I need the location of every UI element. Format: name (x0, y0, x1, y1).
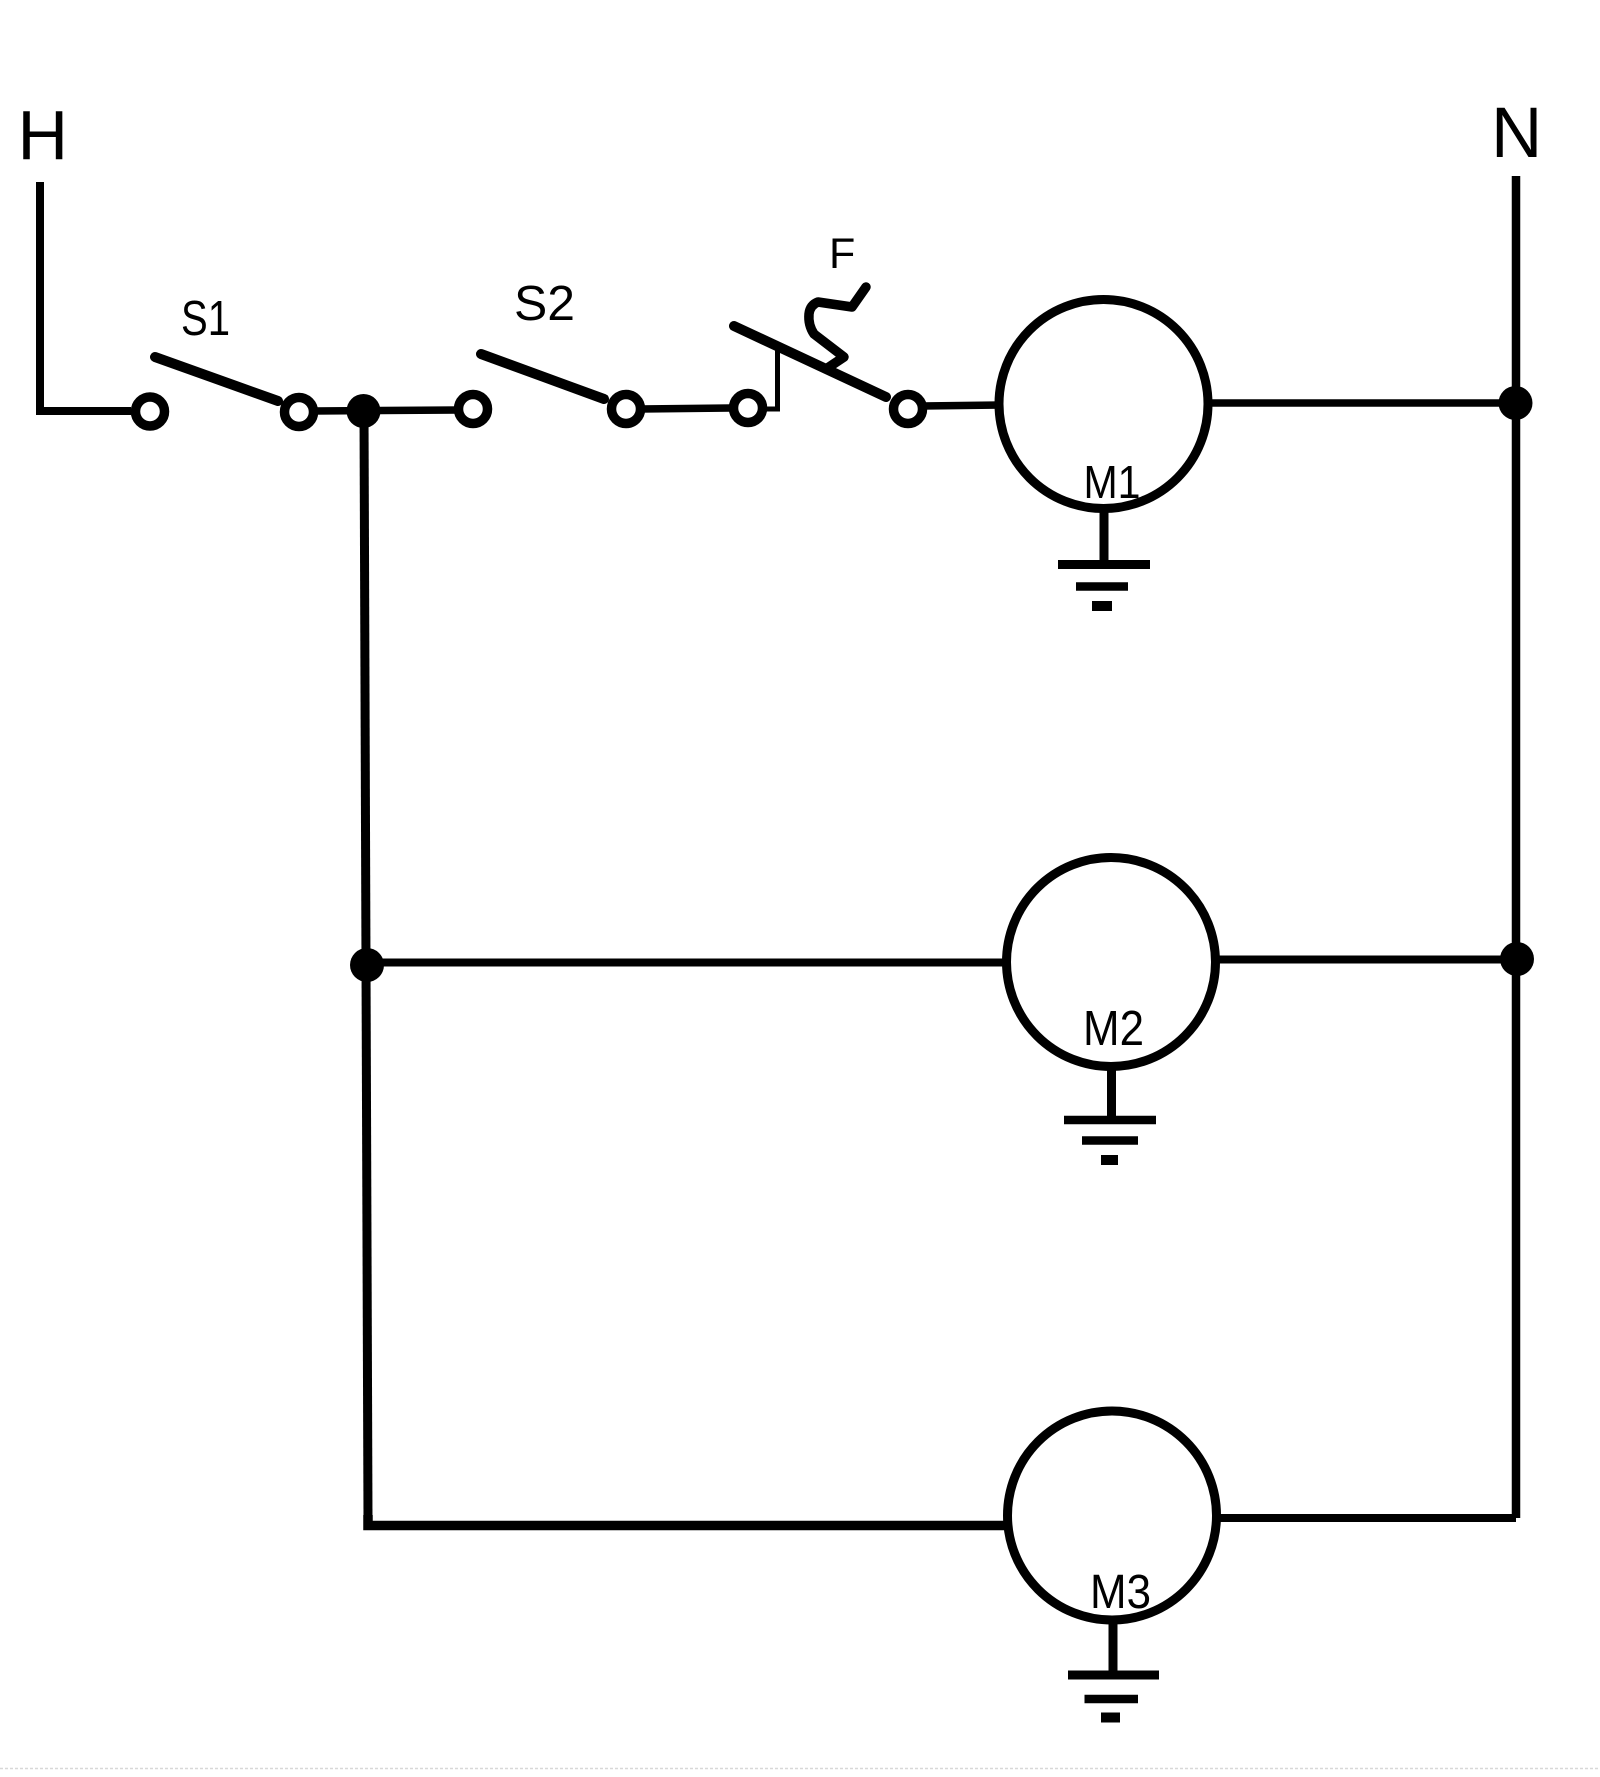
motor M3 (1008, 1411, 1217, 1620)
switch S1 left terminal (136, 397, 165, 426)
wire left rail (vertical) (364, 411, 368, 1521)
overload F thermal squiggle (809, 287, 866, 369)
ground below M3 (1068, 1620, 1159, 1718)
ground below M1 (1058, 508, 1150, 606)
svg-text:N: N (1491, 94, 1542, 173)
switch S2 blade (481, 354, 604, 399)
switch S2 right terminal (612, 395, 641, 424)
overload F left terminal (734, 394, 763, 423)
switch S1 right terminal (285, 398, 314, 427)
svg-text:S2: S2 (514, 277, 575, 331)
switch S1 blade (155, 357, 278, 401)
junction node D (N rail / M2 row) (1500, 942, 1534, 976)
svg-text:M2: M2 (1083, 1002, 1144, 1056)
svg-text:F: F (829, 230, 855, 278)
junction node C (left rail / M2 row) (350, 948, 384, 982)
ground below M2 (1064, 1066, 1156, 1160)
svg-text:H: H (18, 96, 69, 174)
wire S2 to F (640, 408, 731, 409)
wire M1 to N rail (1207, 399, 1513, 407)
wire F to M1 (922, 405, 1001, 406)
svg-text:M3: M3 (1090, 1566, 1151, 1619)
junction node A (top of left rail) (347, 394, 381, 428)
switch S2 left terminal (459, 395, 488, 424)
overload F blade (734, 326, 886, 397)
wire H lead (vertical drop + horizontal run) (40, 182, 131, 411)
overload F link (thin vertical tie) (764, 345, 778, 409)
wire left rail to M2 (367, 959, 1008, 967)
svg-text:M1: M1 (1084, 456, 1141, 508)
wire M2 to N rail (1214, 956, 1514, 964)
svg-text:S1: S1 (181, 292, 230, 346)
wire bottom row left (rail corner to M3) (368, 1515, 1007, 1526)
wire S1 to S2 through junction (313, 410, 459, 411)
faint scanner edge line at bottom (0, 1768, 1600, 1770)
overload F right terminal (894, 395, 923, 424)
motor M1 (999, 300, 1208, 509)
wire N rail (vertical) (1512, 176, 1521, 1518)
motor M2 (1007, 858, 1216, 1067)
wire bottom row right (M3 to N rail corner) (1216, 1514, 1516, 1522)
junction node B (N rail / M1 row) (1499, 386, 1533, 420)
